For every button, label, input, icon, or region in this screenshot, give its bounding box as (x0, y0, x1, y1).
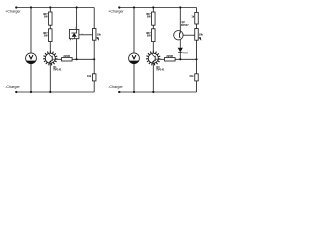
node junction top rail / U1 (76, 6, 78, 8)
transistor Q3 TIP141 (146, 51, 161, 66)
node junction top rail / resistors (152, 6, 154, 8)
resistor 220R (165, 58, 176, 61)
svg-text:5W: 5W (44, 15, 48, 19)
wire between 4R7 resistors (152, 25, 154, 29)
wire Q emitter to bottom rail (152, 63, 154, 92)
resistor 220R (62, 58, 73, 61)
wire right column upper (196, 8, 198, 29)
svg-text:10k: 10k (189, 74, 194, 78)
IC U1 TL431 box (69, 30, 79, 39)
node junction U1 anode / mid row (76, 58, 78, 60)
node junction top rail / Q2 collector (179, 6, 181, 8)
svg-text:BC547: BC547 (181, 24, 189, 27)
U1 anode stub (70, 39, 72, 41)
node junction top rail / voltmeter (133, 6, 135, 8)
wire preset to mid row (196, 40, 198, 59)
wire Q2 base to preset wiper (183, 34, 195, 36)
wire 4R7 to Q collector (152, 42, 154, 54)
svg-text:2: 2 (72, 39, 73, 41)
node +Charger terminal (15, 6, 17, 8)
svg-text:1N4148: 1N4148 (183, 51, 188, 54)
wire voltmeter to bottom rail (30, 64, 32, 93)
preset 10k (upper right) (195, 29, 199, 41)
wire 220R to right column (72, 58, 94, 60)
svg-text:-Charger: -Charger (108, 85, 123, 89)
svg-text:5W: 5W (147, 15, 151, 19)
wire voltmeter to top rail (133, 8, 135, 54)
preset 10k (upper right) (92, 29, 96, 41)
resistor 4R7 5W (upper) (49, 12, 53, 25)
node -Charger terminal (15, 91, 17, 93)
svg-text:1k: 1k (191, 14, 194, 18)
node junction top rail / voltmeter (30, 6, 32, 8)
wire top rail (16, 7, 94, 9)
resistor 1k (top right) (195, 12, 199, 24)
wire top rail (119, 7, 196, 9)
svg-text:5W: 5W (147, 33, 151, 37)
transistor Q2 BC547 (174, 31, 183, 40)
node junction bottom rail / emitter (49, 91, 51, 93)
wire 10k to bottom rail (93, 81, 95, 92)
wire U1 ref to preset wiper (79, 34, 93, 36)
wire bottom rail (119, 91, 196, 93)
preset 10k wiper arrow (198, 37, 201, 41)
svg-text:-Charger: -Charger (5, 85, 20, 89)
wire 10k to bottom rail (196, 81, 198, 92)
diode D1 1N4148 (178, 48, 183, 53)
wire right column upper (93, 8, 95, 29)
resistor 4R7 5W (lower) (152, 29, 156, 42)
svg-text:220R: 220R (166, 54, 173, 58)
node junction top rail / resistors (49, 6, 51, 8)
U1 anode pin inside box (73, 37, 75, 39)
svg-text:5W: 5W (44, 33, 48, 37)
wire 220R to right column (175, 58, 196, 60)
wire 4R7 to Q collector (49, 42, 51, 54)
node junction bottom rail / emitter (152, 91, 154, 93)
svg-text:TIP141: TIP141 (53, 67, 62, 71)
resistor 10k (lower right) (92, 74, 96, 81)
svg-text:220R: 220R (63, 54, 70, 58)
resistor 4R7 5W (upper) (152, 12, 156, 25)
voltmeter M (26, 53, 37, 64)
wire preset to mid row (93, 40, 95, 59)
svg-text:+Charger: +Charger (108, 9, 124, 13)
U1 cathode pin inside box (76, 30, 78, 34)
wire lower right column (93, 59, 95, 74)
svg-text:10k: 10k (199, 32, 204, 36)
transistor Q1 TIP141 (43, 51, 58, 66)
voltmeter M (129, 53, 140, 64)
svg-text:10k: 10k (87, 74, 92, 78)
wire Q base to R 220R (55, 58, 61, 60)
U1 zener triangle (72, 33, 77, 37)
wire rail to R 4R7 first (152, 8, 154, 13)
wire diode to mid row (179, 52, 181, 59)
node +Charger terminal (118, 6, 120, 8)
svg-text:10k: 10k (97, 32, 102, 36)
node -Charger terminal (118, 91, 120, 93)
svg-text:3: 3 (75, 28, 76, 30)
wire Q base to R 220R (158, 58, 164, 60)
preset 10k wiper arrow (96, 37, 99, 41)
node junction diode / mid row (179, 58, 181, 60)
wire voltmeter to top rail (30, 8, 32, 54)
resistor 10k (lower right) (195, 74, 199, 81)
node junction bottom rail / voltmeter (30, 91, 32, 93)
wire bottom rail (16, 91, 94, 93)
wire Q emitter to bottom rail (49, 63, 51, 92)
wire voltmeter to bottom rail (133, 64, 135, 93)
svg-text:+Charger: +Charger (5, 9, 21, 13)
wire lower right column (196, 59, 198, 74)
wire rail to U1 cathode (76, 8, 78, 60)
node junction mid row / right column (93, 58, 95, 60)
wire between 4R7 resistors (49, 25, 51, 29)
wire rail to R 4R7 first (49, 8, 51, 13)
U1 zener cathode bar (71, 32, 77, 34)
node junction mid row / right column (195, 58, 197, 60)
svg-text:TIP141: TIP141 (156, 67, 165, 71)
wire Q2 collector inside (179, 31, 181, 33)
resistor 4R7 5W (lower) (49, 29, 53, 42)
node junction bottom rail / voltmeter (133, 91, 135, 93)
wire rail to Q2 collector (179, 8, 181, 31)
